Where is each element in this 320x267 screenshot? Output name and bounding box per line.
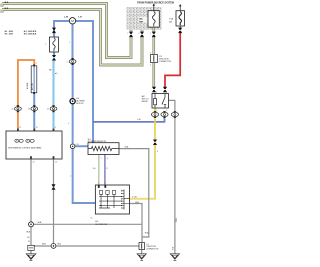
fuse 2 lower stub [179,26,181,28]
svg-text:RELAY: RELAY [142,100,149,103]
blower resistor box [88,143,119,155]
svg-text:4: 4 [67,61,68,63]
integration control and panel box [6,131,62,159]
connector pin wedge orange at panel [16,105,19,112]
connector relay pin 5 [161,112,168,116]
svg-text:2: 2 [127,33,128,35]
svg-text:22: 22 [47,109,49,111]
svg-text:2: 2 [138,33,139,35]
svg-text:2: 2 [36,63,37,65]
svg-text:1: 1 [150,33,151,35]
connector blue at panel [31,107,38,111]
connector pin wedge relay pin 2 [154,111,157,118]
wire W-B blower switch to J5 [130,204,143,243]
svg-text:✳4 : B-R B-R: ✳4 : B-R B-R [24,33,37,36]
blower motor round connector B3 [70,99,75,104]
bus rail B-R (top rail 1) [2,4,131,58]
wire L-B motor node to magnetic clutch relay [93,117,165,122]
connector on panel right ground wire [52,184,56,190]
wire olive from HTR fuse down to relay via J11 [131,27,154,87]
blower switch box [95,185,129,214]
svg-text:5: 5 [105,183,106,185]
connector relay top left (olive) [152,87,156,93]
svg-text:L: L [69,42,70,44]
square junction left ground block [28,245,34,250]
connector pin wedge relay W-B pin [173,111,176,118]
connector pin wedge relay pin 5 [163,111,166,118]
svg-text:5: 5 [166,110,167,112]
wire SB breaker to panel [53,60,55,130]
svg-text:4: 4 [150,52,151,54]
svg-text:2: 2 [95,141,96,143]
connector on motor stem [69,60,76,64]
svg-text:L: L [70,176,71,178]
J5 junction connector [139,243,145,250]
wire red from fuse 2 to relay [165,33,180,87]
svg-text:B-R: B-R [5,2,9,4]
svg-text:L: L [68,123,69,125]
wire L junction down and into blower switch [73,149,96,204]
wire L component to panel [33,93,35,130]
wire W-B panel right pin down [53,159,55,243]
connector on rail 1 stub [129,32,133,37]
svg-text:✱2: ✱2 [55,72,57,75]
svg-text:23: 23 [33,161,35,163]
svg-text:41 AMP: 41 AMP [26,82,29,89]
connector pin wedge on motor stem [71,58,74,65]
connector relay pin 2 [151,112,158,116]
svg-text:20: 20 [28,109,30,111]
connector on HTR fuse column [152,32,156,37]
wire Y relay to blower switch [130,108,155,199]
svg-text:CONNECTOR: CONNECTOR [146,249,159,251]
svg-text:1 Y-B: 1 Y-B [132,196,137,198]
ground right [170,254,179,261]
svg-text:HTR: HTR [139,21,144,23]
connector below fuse 2 (red) [178,28,182,33]
svg-text:12: 12 [19,127,21,129]
svg-text:L-R: L-R [78,17,82,19]
wire W-B relay right pin to ground [169,100,175,253]
connector on rail 2 stub [140,32,144,37]
svg-text:2: 2 [156,110,157,112]
magnetic clutch relay box [152,94,169,109]
connector relay top right (red) [163,87,167,93]
svg-text:14: 14 [55,161,57,163]
svg-text:21: 21 [12,109,14,111]
wire W-B panel left pin to ground [30,159,32,245]
wire W-B bottom bus to J5 [34,245,139,247]
svg-text:INTEGRATION CONTROL AND PANEL: INTEGRATION CONTROL AND PANEL [8,146,41,149]
connector on yellow wire [153,140,157,146]
svg-text:8: 8 [55,127,56,129]
inline connector pairs (male/female) [52,28,183,190]
ground left [26,254,36,261]
svg-text:7: 7 [98,183,99,185]
junction node bottom bus [51,244,56,249]
power source hatched block [127,7,162,30]
svg-text:1: 1 [157,151,158,153]
svg-text:16: 16 [91,218,93,220]
connector pin wedge blue at panel [33,105,36,112]
wire V resistor to switch [104,155,106,187]
svg-text:4: 4 [150,65,151,67]
ground middle [137,254,146,261]
svg-text:1: 1 [101,158,102,160]
svg-text:BLOWER SW: BLOWER SW [95,224,107,226]
wire orange panel to component [18,60,34,130]
svg-text:MOTOR: MOTOR [76,103,84,105]
bus rail B-R (top rail 2) [2,10,142,66]
connector below breaker [52,55,56,61]
svg-text:✳3 : B-R B-R: ✳3 : B-R B-R [24,30,37,33]
fuse HTR feed stub with arrow [153,5,155,11]
svg-text:A/C SW: A/C SW [31,83,34,90]
svg-text:3: 3 [107,158,108,160]
svg-text:L-W: L-W [64,17,68,19]
wire W-B branch junction to J5 column [34,223,142,225]
connector motor left above breaker [52,28,56,33]
pin rectangles at panel box [17,129,19,131]
fuse 2 feed stub with arrow [179,6,181,11]
connector relay right W-B [171,112,178,116]
wire L-W blower motor to breaker (blue, top left arm) [54,21,69,37]
component box (A/C control) on orange wire [31,64,37,94]
wire W-B J5 to ground [141,250,143,254]
connector orange at panel [15,107,22,111]
connector pin wedge SB at panel [52,105,55,112]
svg-text:2: 2 [45,44,46,46]
wire breaker lower stub [53,52,55,56]
svg-text:1: 1 [156,92,157,94]
wire L motor bottom stem [72,24,74,144]
svg-text:CONNECTOR: CONNECTOR [159,61,172,63]
svg-text:FROM POWER SOURCE SYSTEM: FROM POWER SOURCE SYSTEM [137,2,174,4]
fuse GAUGE [176,11,185,26]
J11 junction connector [151,55,158,63]
fuse label 15A HTR [138,17,147,24]
wire W-B resistor to J5 [119,149,149,237]
svg-text:13: 13 [36,127,38,129]
fuse HTR [148,11,159,27]
circuit breaker (blower) [50,37,59,52]
blower switch pins [98,185,100,188]
svg-text:B-R: B-R [5,8,9,10]
svg-text:✳1 : B-R: ✳1 : B-R [5,30,14,33]
oval connectors [15,60,179,117]
connector SB at panel [50,107,57,111]
junction node on L wire [70,144,75,149]
blower motor circle node [69,18,75,24]
svg-text:BLOWER RESISTOR: BLOWER RESISTOR [88,141,107,143]
wire W-B square junction to ground [30,250,32,253]
wire L-R junction branch to resistor left [75,145,89,147]
wire LG resistor to switch [98,155,100,187]
svg-text:✳2 : B-R: ✳2 : B-R [5,33,14,36]
junction node W-B left column [29,222,34,227]
wire L-R motor right arm down to blower resistor [76,21,93,143]
